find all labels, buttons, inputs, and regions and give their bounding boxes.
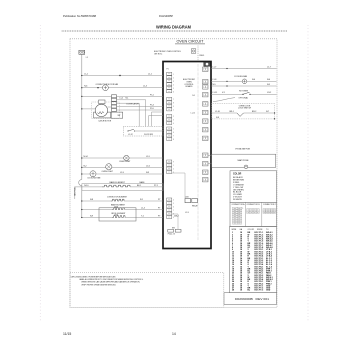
svg-text:GND: GND (266, 290, 271, 292)
svg-text:P5-4: P5-4 (150, 105, 154, 107)
svg-text:5: 5 (173, 203, 174, 205)
svg-text:W WHITE: W WHITE (233, 199, 243, 201)
svg-text:1: 1 (173, 110, 174, 112)
element enclosure (99, 208, 136, 221)
svg-text:4: 4 (173, 200, 174, 202)
svg-text:LABEL ALL WIRES PRIOR TO DISCO: LABEL ALL WIRES PRIOR TO DISCONNECTION W… (79, 278, 143, 281)
strip wires (117, 95, 164, 97)
optional link (213, 98, 235, 102)
oven light DS1 (82, 157, 124, 159)
connector section box (230, 202, 277, 226)
svg-text:8: 8 (173, 103, 174, 105)
svg-text:N-7: N-7 (266, 111, 269, 113)
diagram frame (70, 39, 277, 308)
page guide right (307, 25, 309, 322)
svg-text:L1-10: L1-10 (191, 113, 195, 115)
svg-text:Y-1: Y-1 (141, 216, 144, 218)
svg-text:2: 2 (173, 77, 174, 79)
svg-text:TO: TO (266, 229, 269, 231)
svg-text:8: 8 (173, 139, 174, 141)
color legend box (230, 171, 277, 203)
svg-text:P10-1 2 3: P10-1 2 3 (168, 234, 175, 236)
svg-text:P7: P7 (158, 216, 160, 218)
svg-text:N-8: N-8 (216, 117, 219, 119)
latch wires (108, 106, 112, 108)
pin P3 top (204, 62, 210, 66)
warning note box (70, 273, 224, 308)
svg-text:FROM: FROM (257, 229, 263, 231)
connector C pin grid (263, 209, 266, 211)
svg-text:2: 2 (173, 116, 174, 118)
meat probe box (212, 154, 276, 167)
svg-text:L1-4: L1-4 (143, 86, 147, 88)
svg-text:NEUTRAL: NEUTRAL (74, 187, 77, 196)
svg-text:N-6: N-6 (84, 86, 87, 88)
header rule (62, 30, 287, 32)
svg-text:OPTIONAL MEAT PROBE: OPTIONAL MEAT PROBE (235, 147, 250, 150)
svg-text:L1-8: L1-8 (213, 79, 217, 81)
svg-text:V-1: V-1 (222, 92, 225, 94)
svg-text:BR-2: BR-2 (252, 111, 256, 113)
svg-text:3: 3 (173, 120, 174, 122)
svg-text:P7: P7 (158, 199, 160, 201)
svg-text:11/15: 11/15 (63, 332, 71, 336)
svg-text:P1: P1 (167, 69, 169, 71)
svg-text:1: 1 (173, 74, 174, 76)
cooling fan B2 (82, 173, 90, 175)
revision box (224, 293, 277, 305)
svg-text:N-10: N-10 (84, 185, 88, 187)
door switch S1 (123, 126, 163, 136)
wire N-2 (211, 85, 277, 87)
svg-text:OVEN LIGHT: OVEN LIGHT (119, 161, 131, 163)
svg-text:BK-1: BK-1 (137, 185, 141, 187)
wire L1-1 (82, 75, 163, 77)
svg-text:DOOR SW: DOOR SW (144, 134, 153, 136)
connector A strip (112, 95, 117, 98)
svg-text:N-4: N-4 (252, 79, 255, 81)
svg-text:N-5: N-5 (213, 84, 216, 86)
wire table rows (232, 231, 273, 234)
door lock box (211, 103, 274, 119)
svg-text:4: 4 (173, 123, 174, 125)
svg-text:WIRING ERRORS CAN CAUSE IMPROP: WIRING ERRORS CAN CAUSE IMPROPER AND DAN… (81, 281, 140, 284)
terminal J1 (191, 49, 196, 53)
svg-text:LATCH MOTOR: LATCH MOTOR (99, 120, 112, 123)
svg-text:14: 14 (172, 332, 176, 336)
svg-text:P7: P7 (158, 208, 160, 210)
wire table box (230, 227, 277, 293)
svg-text:BR-1: BR-1 (230, 111, 234, 113)
wire L1-7 (211, 68, 277, 70)
svg-text:208-2: 208-2 (174, 216, 179, 218)
svg-text:WIRE: WIRE (232, 229, 237, 231)
svg-text:L1-1: L1-1 (148, 73, 152, 75)
svg-text:BOARD: BOARD (186, 85, 193, 88)
svg-text:OR EOC: OR EOC (154, 54, 163, 56)
svg-text:5: 5 (173, 88, 174, 90)
svg-text:N-5: N-5 (267, 84, 270, 86)
svg-text:UNPLUG/DISCONNECT POWER BEFORE: UNPLUG/DISCONNECT POWER BEFORE SERVICING… (71, 276, 116, 278)
svg-text:L1-7: L1-7 (213, 66, 217, 68)
relay K1 block (185, 199, 191, 203)
svg-text:D0269000B REV 001: D0269000B REV 001 (235, 297, 270, 301)
svg-text:N-4: N-4 (267, 79, 270, 81)
svg-text:OVEN CIRCUIT: OVEN CIRCUIT (177, 39, 204, 43)
latch motor M1 (92, 102, 120, 119)
connector B pin grid (247, 209, 250, 211)
svg-text:L1: L1 (86, 57, 88, 59)
inner wire (172, 172, 186, 174)
svg-text:L1-11: L1-11 (213, 92, 218, 94)
svg-text:GA: GA (240, 228, 243, 231)
svg-text:7: 7 (173, 136, 174, 138)
svg-text:18: 18 (240, 290, 242, 292)
svg-text:Publication No 5995670188: Publication No 5995670188 (63, 14, 96, 18)
svg-text:L1-5: L1-5 (146, 156, 150, 158)
connector P2 right pins (203, 67, 209, 71)
svg-text:6: 6 (173, 91, 174, 93)
svg-text:N-9: N-9 (90, 216, 93, 218)
svg-text:P5-5: P5-5 (150, 108, 154, 110)
svg-text:OPTIONAL: OPTIONAL (239, 96, 249, 99)
svg-text:GY-2: GY-2 (267, 92, 271, 94)
svg-text:L1-12: L1-12 (128, 134, 133, 136)
bus N (74, 187, 76, 200)
oven light DS2 (82, 166, 106, 168)
svg-text:6: 6 (173, 207, 174, 209)
svg-text:COLOR: COLOR (233, 173, 242, 175)
svg-text:ELECTRONIC OVEN CONTROL: ELECTRONIC OVEN CONTROL (154, 51, 182, 53)
cam switch (111, 112, 123, 118)
svg-text:28: 28 (232, 290, 234, 292)
svg-text:9: 9 (173, 106, 174, 108)
svg-text:N-2: N-2 (84, 166, 87, 168)
connector A pin grid (233, 207, 238, 209)
svg-text:5: 5 (173, 129, 174, 131)
probe wires (208, 154, 212, 156)
svg-text:2: 2 (173, 169, 174, 171)
oven control board U1 (163, 62, 211, 249)
latch switch S4 (211, 112, 237, 114)
svg-text:L1-10: L1-10 (215, 111, 220, 113)
svg-text:N-1: N-1 (126, 97, 129, 99)
svg-text:4: 4 (173, 84, 174, 86)
svg-text:L1-1: L1-1 (84, 73, 88, 75)
svg-text:3: 3 (173, 81, 174, 83)
svg-text:COOLING FAN: COOLING FAN (234, 75, 248, 78)
svg-text:N-8: N-8 (90, 199, 93, 201)
svg-text:EOC P7-3: EOC P7-3 (255, 290, 264, 292)
svg-text:9: 9 (173, 162, 174, 164)
svg-text:HOT WIRE: HOT WIRE (239, 91, 249, 93)
svg-text:N-3: N-3 (146, 172, 149, 174)
pin column divider (197, 64, 199, 240)
svg-text:SW: SW (118, 115, 121, 117)
svg-text:208-1: 208-1 (199, 55, 205, 57)
svg-text:L1-7: L1-7 (267, 66, 271, 68)
svg-text:CONNECTOR B: CONNECTOR B (247, 204, 261, 206)
svg-text:7: 7 (173, 99, 174, 101)
wire to board (197, 46, 199, 62)
svg-text:VERIFY PROPER OPERATION AFTER: VERIFY PROPER OPERATION AFTER SERVICING. (81, 283, 116, 286)
door latch wires (117, 99, 146, 101)
svg-text:WIRING DIAGRAM: WIRING DIAGRAM (156, 24, 191, 29)
svg-text:6: 6 (173, 132, 174, 134)
svg-text:CONNECTOR A: CONNECTOR A (232, 203, 246, 206)
svg-text:P5-1: P5-1 (150, 94, 154, 96)
svg-text:OVEN LIGHT: OVEN LIGHT (102, 171, 114, 173)
terminal TB2 top (79, 50, 85, 54)
svg-text:L1-4: L1-4 (141, 208, 145, 210)
svg-text:MEAT PROBE: MEAT PROBE (238, 159, 250, 162)
svg-text:1: 1 (173, 165, 174, 167)
svg-text:L1-3: L1-3 (185, 212, 189, 214)
inner wire (172, 213, 179, 215)
svg-text:L1-9: L1-9 (120, 172, 124, 174)
svg-text:COLOR: COLOR (248, 229, 255, 231)
svg-text:RELAY: RELAY (192, 205, 199, 208)
svg-text:1: 1 (243, 208, 244, 210)
page guide left (39, 25, 41, 322)
svg-text:7: 7 (173, 210, 174, 212)
svg-text:BL: BL (248, 290, 251, 292)
svg-text:L1-2: L1-2 (120, 97, 124, 99)
svg-text:LOCK SWITCH: LOCK SWITCH (238, 108, 252, 110)
bus L1 (81, 55, 83, 180)
svg-text:DOOR LATCH: DOOR LATCH (127, 102, 140, 105)
svg-text:CONVECTION ELEMENT: CONVECTION ELEMENT (107, 197, 128, 199)
svg-text:R-1: R-1 (140, 199, 143, 201)
svg-text:L1-6: L1-6 (146, 166, 150, 168)
svg-text:FGGS3065P: FGGS3065P (159, 14, 173, 18)
svg-text:N-14: N-14 (84, 156, 88, 158)
svg-text:N-5: N-5 (192, 95, 195, 97)
svg-text:P7-1: P7-1 (154, 185, 158, 187)
svg-text:CONNECTOR C: CONNECTOR C (263, 204, 277, 206)
svg-text:COOLING FAN: COOLING FAN (87, 177, 101, 180)
